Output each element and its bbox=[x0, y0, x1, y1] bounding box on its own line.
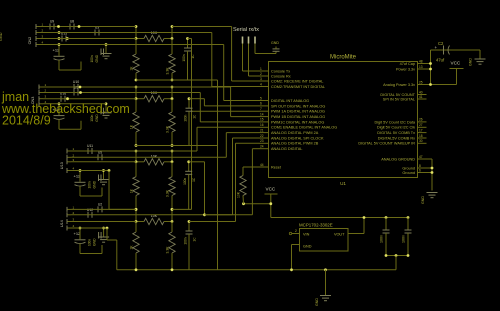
svg-text:U1: U1 bbox=[340, 181, 346, 186]
wire stair Anet to pin7 bbox=[192, 39, 260, 112]
wire serial pin1 to Console Tx bbox=[243, 44, 269, 72]
IC U1 left pin 23 ANALOG DIGITAL PWM 2B bbox=[260, 139, 319, 146]
resistor 3.3K CN3 bbox=[166, 99, 176, 146]
svg-text:15: 15 bbox=[260, 118, 264, 122]
svg-text:GND: GND bbox=[95, 54, 99, 62]
node +12 tap U13 bbox=[79, 169, 82, 172]
node U13 cap top bbox=[187, 160, 190, 163]
wire C row4 bus bbox=[71, 170, 109, 172]
svg-text:DIGITAL 5V COMB Tx: DIGITAL 5V COMB Tx bbox=[377, 131, 415, 135]
wire CN3 net right vert bbox=[171, 87, 173, 99]
IC U1 right pin 26 Digit 5V Count I2C Data bbox=[374, 118, 426, 125]
wire A net out bbox=[188, 38, 192, 40]
wire D row3 bus bbox=[71, 221, 136, 223]
wire C row1 bus bbox=[71, 150, 197, 152]
connector U13 bbox=[60, 147, 75, 173]
wire A row1 bus bbox=[40, 26, 136, 28]
wire A row4 bus bbox=[40, 44, 224, 46]
wire U13 net right vert bbox=[171, 151, 173, 162]
node VCC rail junction bbox=[269, 202, 272, 205]
svg-text:Reset: Reset bbox=[271, 165, 282, 169]
wire caps bottom rail bbox=[386, 255, 408, 257]
svg-text:GND: GND bbox=[315, 298, 319, 306]
wire C botrail is D rail bbox=[109, 208, 136, 210]
svg-text:Power 3.3v: Power 3.3v bbox=[396, 67, 415, 71]
wire C net U-route bbox=[189, 138, 260, 215]
svg-text:PWM1C DIGITAL INT ANALOG: PWM1C DIGITAL INT ANALOG bbox=[271, 120, 324, 124]
svg-text:U9: U9 bbox=[50, 20, 54, 24]
svg-text:10K: 10K bbox=[151, 91, 158, 95]
svg-text:44: 44 bbox=[260, 163, 264, 167]
IC U1 right pin 13 Power 3.3v bbox=[396, 65, 427, 72]
wire D row4 bus bbox=[71, 227, 107, 229]
IC U1 left pin 7 PWM 1A DIGITAL INT ANALOG bbox=[260, 107, 325, 114]
svg-text:22: 22 bbox=[260, 134, 264, 138]
IC U1 left pin 44 Reset bbox=[260, 163, 282, 170]
svg-text:47: 47 bbox=[419, 155, 423, 159]
wire serial pin3 to gnd cap bbox=[255, 44, 276, 54]
IC U1 right pin 18 DIGITAL5V COMB Rx bbox=[378, 134, 427, 141]
wire reset pin to pullup bbox=[243, 166, 260, 168]
node U13 wire nodes bbox=[135, 160, 174, 163]
svg-text:SPI IN 5V DIGITAL: SPI IN 5V DIGITAL bbox=[383, 97, 415, 101]
wire long vertical to D rail bbox=[191, 111, 193, 209]
IC U1 right pin 47 ANALOG GROUND bbox=[381, 155, 426, 162]
svg-text:24: 24 bbox=[260, 145, 264, 149]
capacitor +12 bulk near U14 bbox=[74, 228, 103, 254]
wire stair A2 to COM2 TX bbox=[212, 33, 260, 87]
wire pin48 stub extension bbox=[427, 63, 431, 65]
regulator VIN pin stub bbox=[289, 229, 299, 235]
capacitor +12 bulk near U13 bbox=[74, 171, 103, 197]
svg-text:U8: U8 bbox=[70, 20, 74, 24]
svg-text:Ground: Ground bbox=[402, 171, 415, 175]
node C row4 drop junction bbox=[108, 169, 111, 172]
svg-text:VIN: VIN bbox=[303, 233, 310, 237]
wire A botrail long drop bbox=[217, 80, 219, 270]
wire caps rail down to ground rail bbox=[395, 256, 397, 270]
wire stair C2 to pin21 bbox=[226, 133, 259, 158]
svg-text:SPI OUT DIGITAL INT ANALOG: SPI OUT DIGITAL INT ANALOG bbox=[271, 104, 325, 108]
ground center bottom bbox=[315, 296, 331, 307]
svg-text:U13: U13 bbox=[60, 162, 64, 169]
IC U1 left pin 5 DIGITAL INT ANALOG bbox=[260, 96, 310, 103]
wire ground pins join bbox=[431, 159, 433, 191]
svg-text:ANALOG DIGITAL SPI CLOCK: ANALOG DIGITAL SPI CLOCK bbox=[271, 136, 324, 140]
wire D row2 ext bbox=[205, 214, 253, 216]
ground left edge label bbox=[0, 32, 3, 41]
node CN3 cap top bbox=[188, 97, 191, 100]
ground top-right bbox=[469, 58, 486, 66]
svg-text:100n: 100n bbox=[184, 237, 188, 244]
IC U1 right pin 48 47uf Cap bbox=[400, 59, 427, 66]
capacitor serial GND decoupling bbox=[271, 41, 280, 54]
wire D net out bbox=[189, 221, 236, 223]
IC U1 right pin 17 DIGITAL 5V COMB Tx bbox=[377, 128, 426, 135]
svg-text:ANALOG DIGITAL PWM 2A: ANALOG DIGITAL PWM 2A bbox=[271, 131, 319, 135]
wire VCC to regulator top rail bbox=[271, 217, 408, 219]
node CN2 cap top bbox=[186, 37, 189, 40]
connector CN1 serial header bbox=[243, 37, 256, 44]
svg-text:Digit 5V Count I2C Clk: Digit 5V Count I2C Clk bbox=[377, 126, 415, 130]
svg-text:PWM 1B DIGITAL INT ANALOG: PWM 1B DIGITAL INT ANALOG bbox=[271, 115, 325, 119]
svg-text:100n: 100n bbox=[184, 114, 188, 121]
svg-text:100n: 100n bbox=[88, 239, 92, 246]
svg-text:Ground: Ground bbox=[402, 166, 415, 170]
svg-text:COM2: RECEIVE INT DIGITAL: COM2: RECEIVE INT DIGITAL bbox=[271, 79, 323, 83]
wire CN3 net left vert bbox=[135, 87, 137, 99]
wire A botrail bbox=[136, 79, 218, 81]
svg-text:7: 7 bbox=[260, 107, 262, 111]
IC U1 right pin 40 DIGITAL 5V COUNT bbox=[380, 90, 426, 97]
svg-text:+: + bbox=[435, 45, 438, 50]
svg-text:26: 26 bbox=[419, 118, 423, 122]
wire regulator GND down bbox=[292, 245, 300, 270]
wire ground pin6 ext bbox=[427, 172, 433, 174]
node A row3 dots bbox=[58, 37, 69, 40]
node U13 rail nodes bbox=[135, 150, 174, 153]
component U16 series on CN3 row 3 bbox=[60, 92, 66, 102]
node U14 rail nodes bbox=[135, 208, 174, 211]
svg-text:100n: 100n bbox=[380, 235, 384, 243]
IC U1 left pin 24 ANALOG DIGITAL bbox=[260, 145, 303, 152]
svg-text:40: 40 bbox=[419, 90, 423, 94]
svg-text:21: 21 bbox=[260, 128, 264, 132]
IC U1 left pin 15 PWM1C DIGITAL INT ANALOG bbox=[260, 118, 325, 125]
watermark www.thebackshed.com bbox=[1, 102, 130, 116]
component U8 series on CN2 row 1 bbox=[70, 20, 74, 30]
svg-text:GND: GND bbox=[93, 238, 97, 246]
IC U1 left pin 16 COM1 ENABLE DIGITAL INT ANALOG bbox=[260, 123, 338, 130]
capacitor GND decoupling near U13 bbox=[88, 171, 110, 189]
node +12 tap CN3 bbox=[58, 102, 61, 105]
svg-text:1K: 1K bbox=[130, 245, 134, 250]
node D row4 drop junction bbox=[106, 227, 109, 230]
IC U1 left pin 21 ANALOG DIGITAL PWM 2A bbox=[260, 128, 319, 135]
capacitor GND decoupling near CN3 bbox=[90, 104, 112, 122]
wire D row4 drop to ground rail bbox=[107, 228, 117, 270]
svg-text:1K: 1K bbox=[130, 188, 134, 193]
svg-text:16: 16 bbox=[260, 123, 264, 127]
resistor 10K series U14 bbox=[136, 214, 172, 225]
capacitor GND decoupling near U14 bbox=[88, 228, 110, 246]
capacitor C3 100n bbox=[380, 218, 390, 256]
svg-text:GND: GND bbox=[0, 32, 3, 41]
node ground pin8 junction bbox=[431, 167, 434, 170]
svg-text:VCC: VCC bbox=[451, 61, 461, 66]
svg-text:ANALOG DIGITAL: ANALOG DIGITAL bbox=[271, 147, 302, 151]
svg-text:4: 4 bbox=[260, 82, 262, 86]
node analog power junction bbox=[429, 83, 432, 86]
svg-text:DIGITAL 5V COUNT WAKEUP IR: DIGITAL 5V COUNT WAKEUP IR bbox=[358, 142, 415, 146]
svg-text:6: 6 bbox=[419, 168, 421, 172]
wire pin48 to C2 node bbox=[430, 50, 432, 85]
wire C row2 bus bbox=[71, 156, 226, 158]
component U15 series on CN2 row 3 bbox=[61, 32, 67, 42]
svg-text:2014/8/9: 2014/8/9 bbox=[2, 114, 51, 128]
svg-text:14: 14 bbox=[260, 112, 264, 116]
svg-text:Digit 5V Count I2C Data: Digit 5V Count I2C Data bbox=[374, 120, 415, 124]
svg-text:3.3K: 3.3K bbox=[166, 246, 170, 254]
node VOUT junction bbox=[363, 216, 366, 219]
IC U1 left pin 4 COM2:TRANSMIT INT DIGITAL bbox=[260, 82, 326, 89]
svg-text:2: 2 bbox=[260, 72, 262, 76]
node center gnd junction bbox=[324, 268, 327, 271]
node gnd cap tap U13 bbox=[102, 169, 105, 172]
svg-text:COM1 ENABLE DIGITAL INT ANALOG: COM1 ENABLE DIGITAL INT ANALOG bbox=[271, 126, 337, 130]
IC U1 right pin 30 DIGITAL 5V COUNT WAKEUP IR bbox=[358, 139, 426, 146]
svg-text:3: 3 bbox=[260, 77, 262, 81]
resistor 3.3K CN2 bbox=[166, 39, 176, 81]
wire B botrail bbox=[135, 145, 218, 147]
IC U1 left pin 6 SPI OUT DIGITAL INT ANALOG bbox=[260, 102, 326, 109]
component U9 series on CN2 row 1 bbox=[50, 20, 54, 30]
wire CN2 net left vert bbox=[135, 27, 137, 39]
svg-text:1K: 1K bbox=[130, 66, 134, 71]
wire reset pullup rail bbox=[244, 203, 271, 205]
wire VOUT up to rail bbox=[348, 218, 364, 234]
svg-text:1C: 1C bbox=[192, 177, 196, 182]
wire B row1 bus bbox=[43, 86, 231, 88]
component U10 series on CN3 row 1 bbox=[73, 80, 79, 90]
wire ground pin8 ext bbox=[427, 167, 433, 169]
component U3 series on CN2 row 2 bbox=[95, 26, 99, 36]
svg-text:DIGITAL5V COMB Rx: DIGITAL5V COMB Rx bbox=[378, 136, 415, 140]
node CN3 botrail dots bbox=[135, 144, 174, 147]
label Serial rx/tx bbox=[233, 27, 259, 33]
wire stair C1 to pin16 bbox=[197, 127, 260, 151]
node +12 tap CN2 bbox=[58, 43, 61, 46]
svg-text:30: 30 bbox=[419, 139, 423, 143]
svg-text:1C: 1C bbox=[193, 237, 197, 242]
svg-text:10K: 10K bbox=[237, 191, 241, 198]
svg-text:DIGITAL INT ANALOG: DIGITAL INT ANALOG bbox=[271, 99, 309, 103]
wire C row4 drop to D rail bbox=[108, 171, 110, 210]
capacitor +12 bulk near CN2 bbox=[53, 45, 82, 71]
connector CN3 bbox=[31, 83, 47, 106]
svg-text:VOUT: VOUT bbox=[334, 233, 345, 237]
IC U1 left pin 14 PWM 1B DIGITAL INT ANALOG bbox=[260, 112, 326, 119]
wire main ground rail bbox=[117, 269, 396, 271]
capacitor 100n CN3 bbox=[184, 99, 197, 146]
svg-text:23: 23 bbox=[260, 139, 264, 143]
svg-text:1C: 1C bbox=[193, 114, 197, 119]
wire D row1 rail ext bbox=[172, 208, 192, 210]
svg-text:100n: 100n bbox=[183, 178, 187, 185]
resistor 1K CN2 bbox=[130, 39, 140, 81]
node gnd cap tap CN2 bbox=[105, 43, 108, 46]
resistor 10K series CN2 bbox=[136, 31, 172, 42]
svg-text:MCP1702-3302E: MCP1702-3302E bbox=[299, 223, 333, 228]
node CN3 wire nodes bbox=[135, 97, 174, 100]
component U5 series on CN3 row 2 bbox=[74, 86, 78, 96]
wire stair A1 to COM2 RX bbox=[232, 27, 260, 82]
wire B row2 bus bbox=[43, 92, 200, 94]
wire analog ground stub bbox=[427, 158, 433, 160]
svg-text:CN2: CN2 bbox=[28, 37, 32, 45]
component U5 series on U13 row 2 bbox=[98, 150, 102, 160]
wire C row3 bus bbox=[71, 161, 136, 163]
node ground pin6 junction bbox=[431, 171, 434, 174]
wire B row4 bus bbox=[43, 103, 106, 105]
wire A row3 bus bbox=[40, 38, 136, 40]
watermark jman bbox=[1, 90, 29, 104]
node power3v3 junction bbox=[429, 68, 432, 71]
svg-text:18: 18 bbox=[419, 134, 423, 138]
svg-text:Console Tx: Console Tx bbox=[271, 69, 290, 73]
svg-text:ANALOG GROUND: ANALOG GROUND bbox=[381, 157, 415, 161]
IC U1 right pin 6 Ground bbox=[402, 168, 426, 175]
svg-text:8: 8 bbox=[419, 164, 421, 168]
IC U1 right pin 41 SPI IN 5V DIGITAL bbox=[383, 95, 427, 102]
IC U1 right pin 8 Ground bbox=[402, 164, 426, 171]
wire gnd drop top-right bbox=[479, 50, 481, 59]
svg-text:C2: C2 bbox=[438, 41, 444, 46]
svg-text:100n: 100n bbox=[182, 54, 186, 61]
svg-text:GND: GND bbox=[421, 196, 425, 204]
svg-text:Console Rx: Console Rx bbox=[271, 74, 291, 78]
connector U14 bbox=[60, 205, 75, 230]
wire U14 net left vert bbox=[135, 209, 137, 221]
svg-text:GND: GND bbox=[303, 245, 312, 249]
resistor 1K CN3 bbox=[130, 99, 140, 146]
svg-text:25: 25 bbox=[419, 80, 423, 84]
svg-text:GND: GND bbox=[271, 41, 279, 45]
svg-text:3.3K: 3.3K bbox=[166, 189, 170, 197]
svg-text:MicroMite: MicroMite bbox=[330, 55, 357, 61]
wire stair D2row to pin24 bbox=[252, 149, 259, 215]
node gnd cap tap CN3 bbox=[105, 102, 108, 105]
IC U1 right pin 25 Analog Power 3.3v bbox=[383, 80, 426, 87]
svg-text:VCC: VCC bbox=[266, 187, 276, 192]
wire power top rail bbox=[431, 49, 481, 51]
svg-text:100n: 100n bbox=[90, 55, 94, 62]
svg-text:5: 5 bbox=[260, 96, 262, 100]
node regulator gnd junction bbox=[290, 268, 293, 271]
node U14 cap top bbox=[188, 220, 191, 223]
svg-text:2: 2 bbox=[295, 229, 297, 233]
svg-text:100n: 100n bbox=[88, 181, 92, 188]
wire D row1 bus bbox=[71, 208, 136, 210]
node cap C4 top junction bbox=[407, 216, 410, 219]
component U11 series on U13 row 1 bbox=[87, 144, 93, 154]
wire B row3 bus bbox=[43, 98, 136, 100]
svg-text:U11: U11 bbox=[87, 144, 93, 148]
svg-text:COM2:TRANSMIT INT DIGITAL: COM2:TRANSMIT INT DIGITAL bbox=[271, 85, 325, 89]
wire D row2 bus bbox=[71, 214, 205, 216]
capacitor 100n CN2 bbox=[182, 39, 195, 81]
IC U1 left pin 2 Console Rx bbox=[260, 72, 291, 79]
svg-text:ANALOG DIGITAL PWM 2B: ANALOG DIGITAL PWM 2B bbox=[271, 142, 319, 146]
node CN2 rail nodes bbox=[135, 25, 174, 28]
resistor 10K series CN3 bbox=[136, 91, 172, 102]
node pin48 junction bbox=[429, 62, 432, 65]
node +12 tap U14 bbox=[79, 227, 82, 230]
capacitor 100n U13 bbox=[183, 162, 196, 210]
svg-text:47uf: 47uf bbox=[436, 58, 445, 63]
component U12 series on U14 row 2 bbox=[87, 208, 93, 218]
wire U13 net left vert bbox=[135, 151, 137, 162]
wire power 3.3v stub extension bbox=[427, 68, 431, 70]
wire stair B3 to pin15 bbox=[200, 93, 259, 122]
svg-text:17: 17 bbox=[419, 128, 423, 132]
svg-text:13: 13 bbox=[419, 65, 423, 69]
IC U1 left pin 3 COM2: RECEIVE INT DIGITAL bbox=[260, 77, 324, 84]
wire stair B1 to pin14 bbox=[231, 87, 260, 117]
svg-text:3.3K: 3.3K bbox=[166, 67, 170, 75]
resistor 1K U14 bbox=[130, 222, 140, 270]
capacitor +12 bulk near CN3 bbox=[53, 104, 82, 130]
node A row2 dot bbox=[58, 31, 61, 34]
node gnd cap tap U14 bbox=[102, 227, 105, 230]
node B row1 comp dot bbox=[79, 86, 82, 89]
node U14 wire nodes bbox=[135, 220, 174, 223]
wire CN2 net right vert bbox=[171, 27, 173, 39]
svg-text:Serial rx/tx: Serial rx/tx bbox=[233, 27, 259, 33]
power VCC tap top-right bbox=[450, 61, 464, 85]
resistor R9 reset pullup 10K bbox=[237, 167, 247, 204]
wire A row1 rail ext bbox=[172, 26, 232, 28]
svg-text:U2: U2 bbox=[98, 202, 102, 206]
ground below IC right bbox=[421, 193, 438, 205]
svg-text:Analog Power 3.3v: Analog Power 3.3v bbox=[383, 83, 415, 87]
wire serial pin2 to Console Rx bbox=[249, 44, 269, 77]
resistor 3.3K U14 bbox=[166, 222, 176, 270]
node B row2 comp dot bbox=[79, 91, 82, 94]
wire stair Bnet to pin6 bbox=[204, 99, 259, 106]
svg-text:GND: GND bbox=[469, 58, 473, 66]
svg-text:U10: U10 bbox=[73, 80, 79, 84]
resistor 1K U13 bbox=[130, 162, 140, 210]
capacitor GND decoupling near CN2 bbox=[90, 45, 112, 63]
svg-text:1K: 1K bbox=[130, 124, 134, 129]
watermark 2014/8/9 bbox=[2, 114, 51, 128]
svg-text:100n: 100n bbox=[402, 235, 406, 243]
resistor 10K series U13 bbox=[136, 154, 172, 165]
op-amp U1 MicroMite IC body bbox=[269, 55, 418, 187]
svg-text:GND: GND bbox=[93, 180, 97, 188]
IC U1 left pin 1 Console Tx bbox=[260, 67, 291, 74]
node CN3 rail nodes bbox=[135, 86, 174, 89]
wire A row2 bus bbox=[40, 32, 212, 34]
node U14 botrail dots bbox=[135, 268, 174, 271]
wire B net out bbox=[189, 98, 204, 100]
capacitor C4 100n bbox=[402, 218, 412, 256]
wire U14 net right vert bbox=[171, 209, 173, 221]
connector CN2 bbox=[28, 23, 44, 48]
svg-text:U14: U14 bbox=[60, 220, 64, 227]
node CN2 botrail dots bbox=[135, 79, 174, 82]
capacitor C2 47uf bbox=[431, 41, 481, 63]
svg-text:1: 1 bbox=[260, 67, 262, 71]
node pullup bottom junction bbox=[242, 202, 245, 205]
svg-text:27: 27 bbox=[419, 123, 423, 127]
wire center ground drop bbox=[325, 270, 327, 296]
IC U1 left pin 22 ANALOG DIGITAL SPI CLOCK bbox=[260, 134, 325, 141]
capacitor 100n U14 bbox=[184, 222, 197, 270]
svg-text:6: 6 bbox=[260, 102, 262, 106]
IC U1 right pin 27 Digit 5V Count I2C Clk bbox=[377, 123, 426, 130]
regulator U2 MCP1702-3302E bbox=[299, 223, 348, 252]
node D row2 join bbox=[203, 213, 206, 216]
svg-text:47uf Cap: 47uf Cap bbox=[400, 62, 415, 66]
resistor 3.3K U13 bbox=[166, 162, 176, 210]
svg-text:48: 48 bbox=[419, 59, 423, 63]
node caps bottom junctions bbox=[385, 254, 410, 257]
wire analog power row bbox=[427, 84, 457, 86]
svg-text:DIGITAL 5V COUNT: DIGITAL 5V COUNT bbox=[380, 93, 415, 97]
component U2 series on U14 row 1 bbox=[98, 202, 102, 212]
